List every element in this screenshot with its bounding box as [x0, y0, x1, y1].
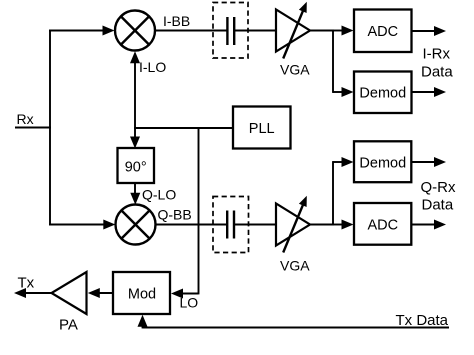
wire: capacitor C2 to VGA2	[235, 224, 277, 226]
svg-text:Tx Data: Tx Data	[396, 312, 449, 329]
wire: Mod to PA (arrow left)	[96, 292, 113, 294]
svg-text:90°: 90°	[125, 160, 147, 176]
wire: VGA1 output to junction	[310, 30, 334, 32]
wire: Rx to I-mixer (arrow)	[49, 30, 106, 32]
wire: LO vertical to I-mixer (arrow up) and 90-deg box (arrow down)	[134, 56, 136, 142]
dashed box around C2	[213, 197, 249, 253]
svg-text:Q-LO: Q-LO	[142, 187, 176, 203]
svg-text:Demod: Demod	[359, 156, 406, 172]
svg-text:I-BB: I-BB	[163, 13, 190, 29]
svg-text:I-Rx: I-Rx	[423, 46, 451, 63]
svg-text:Mod: Mod	[128, 287, 156, 303]
wire: junction down to Demod1 (arrow)	[332, 30, 334, 93]
amplifier VGA1 (variable gain amp)	[276, 2, 310, 59]
block ADC (Q path)	[354, 203, 411, 245]
wire: Tx Data up into Mod (arrow up)	[142, 322, 144, 328]
wire: Tx Data input line	[143, 327, 450, 329]
block Demod (I path)	[354, 72, 412, 114]
svg-text:Rx: Rx	[17, 111, 34, 127]
wire: LO branch down to Mod (arrow left)	[198, 127, 200, 294]
svg-text:VGA: VGA	[280, 62, 310, 78]
svg-text:PA: PA	[59, 317, 78, 334]
wire: Demod1 output arrow	[412, 91, 438, 93]
wire: junction up to Demod2 (arrow)	[332, 161, 334, 225]
block ADC (I path)	[354, 10, 412, 53]
wire: capacitor C1 to VGA1	[235, 30, 277, 32]
svg-text:Tx: Tx	[18, 275, 35, 292]
wire: Rx vertical distribution bus	[49, 30, 51, 226]
wire: Rx to Q-mixer (arrow)	[49, 224, 107, 226]
svg-text:Data: Data	[422, 197, 454, 214]
wire: ADC1 output arrow	[412, 30, 438, 32]
wire: ADC2 output arrow	[412, 224, 438, 226]
svg-text:PLL: PLL	[249, 121, 275, 137]
block PLL	[233, 107, 291, 149]
wire: PLL to LO node	[134, 127, 234, 129]
dashed box around C1	[213, 3, 248, 59]
amplifier PA (power amp)	[52, 272, 87, 314]
svg-text:Data: Data	[421, 64, 453, 81]
wire: Rx input stub	[15, 127, 51, 129]
amplifier VGA2 (variable gain amp)	[276, 196, 310, 253]
wire: Demod2 output arrow	[412, 161, 438, 163]
node: Q-path output junction / wire to ADC2 (arrow)	[333, 224, 345, 226]
wire: Q-LO from 90-deg box to Q-mixer (arrow down)	[134, 183, 136, 197]
wire: VGA2 output to junction	[310, 224, 334, 226]
wire: Q-BB mixer output to capacitor	[156, 224, 227, 226]
block 90-degree phase shifter	[118, 148, 155, 183]
capacitor C1 (DC block)	[227, 17, 234, 45]
mixer U2 (Q-mixer)	[116, 205, 156, 245]
svg-text:I-LO: I-LO	[139, 59, 166, 75]
svg-text:Q-Rx: Q-Rx	[421, 179, 456, 196]
node: I-path output junction / wire to ADC1 (arrow)	[333, 30, 345, 32]
wire: I-BB mixer output to capacitor	[155, 30, 227, 32]
svg-text:VGA: VGA	[280, 258, 310, 274]
capacitor C2 (DC block)	[227, 211, 234, 239]
svg-text:Demod: Demod	[359, 86, 406, 102]
svg-text:Q-BB: Q-BB	[158, 207, 192, 223]
block Mod (modulator)	[113, 272, 170, 314]
block Demod (Q path)	[354, 141, 411, 182]
mixer U1 (I-mixer)	[115, 11, 155, 51]
svg-text:ADC: ADC	[367, 24, 398, 40]
svg-text:ADC: ADC	[367, 218, 398, 234]
svg-text:LO: LO	[180, 295, 199, 311]
wire: PA output Tx (arrow left)	[23, 292, 52, 294]
